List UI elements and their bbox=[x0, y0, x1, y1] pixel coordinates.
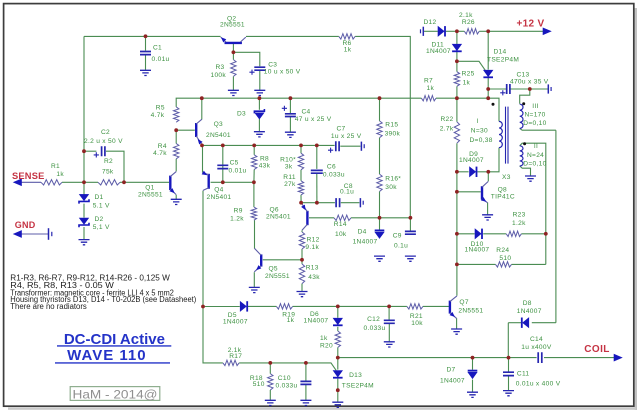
resistor R4 bbox=[174, 144, 179, 159]
svg-text:C9: C9 bbox=[393, 232, 402, 239]
svg-text:D=0,10: D=0,10 bbox=[523, 120, 546, 127]
wire q3 collector drop bbox=[201, 98, 203, 119]
wire iii bottom lead bbox=[520, 128, 556, 130]
svg-text:Q1: Q1 bbox=[145, 185, 154, 192]
wire d14 column bbox=[487, 31, 489, 69]
svg-text:Q4: Q4 bbox=[214, 187, 223, 194]
wire q2-c3 bbox=[233, 52, 259, 66]
wire r24 right bbox=[512, 263, 546, 265]
capacitor C12 bbox=[384, 320, 395, 323]
svg-text:100k: 100k bbox=[211, 72, 227, 79]
wire rail to coil arrow bbox=[544, 357, 616, 359]
transistor Q4 bbox=[207, 174, 209, 189]
svg-text:Q5: Q5 bbox=[269, 266, 278, 273]
resistor R15 bbox=[377, 121, 382, 138]
svg-text:D4: D4 bbox=[358, 229, 367, 236]
wire d5-r19 bbox=[248, 305, 276, 307]
wire r26-dot bbox=[479, 30, 488, 32]
wire q5 base row bbox=[263, 259, 302, 261]
svg-text:C6: C6 bbox=[327, 163, 336, 170]
ground 19 bbox=[467, 392, 478, 397]
wire c5 column bbox=[222, 145, 224, 182]
wire c6 column bbox=[316, 145, 318, 169]
wire q5 gnd lead bbox=[253, 272, 255, 287]
svg-text:N=170: N=170 bbox=[525, 112, 546, 119]
svg-text:COIL: COIL bbox=[584, 344, 610, 355]
svg-text:9.1k: 9.1k bbox=[305, 244, 319, 251]
resistor R2 bbox=[98, 180, 120, 185]
svg-text:2N5551: 2N5551 bbox=[220, 22, 245, 29]
transistor Q7 bbox=[449, 301, 451, 314]
wire d7 col bbox=[472, 358, 474, 370]
capacitor C1 bbox=[140, 52, 151, 55]
diode D11 bbox=[452, 44, 461, 50]
wire q6 base row bbox=[309, 217, 334, 219]
wire bottom rail bbox=[338, 357, 537, 359]
wire r8 column bbox=[253, 145, 255, 154]
wire d6 col bbox=[337, 306, 339, 317]
svg-text:There are no radiators: There are no radiators bbox=[10, 302, 87, 311]
svg-text:R16*: R16* bbox=[385, 175, 401, 182]
diode D12 bbox=[438, 26, 444, 36]
svg-text:C14: C14 bbox=[530, 336, 543, 343]
svg-text:1u x400V: 1u x400V bbox=[521, 344, 552, 351]
svg-text:C10: C10 bbox=[278, 375, 291, 382]
wire r19-d6 bbox=[293, 305, 338, 307]
wire c12 gnd lead bbox=[388, 324, 390, 342]
wire gnd lead bbox=[20, 233, 49, 235]
transformer winding III bbox=[520, 104, 523, 128]
wire c7 to port bbox=[340, 145, 360, 147]
wire c12 col bbox=[388, 306, 390, 320]
svg-text:+12 V: +12 V bbox=[517, 18, 545, 29]
svg-text:R1: R1 bbox=[51, 163, 60, 170]
resistor R12 bbox=[299, 232, 304, 249]
thyristor D13 bbox=[333, 371, 342, 377]
ground 15 bbox=[384, 342, 395, 347]
svg-text:C4: C4 bbox=[302, 108, 311, 115]
resistor R19 bbox=[276, 304, 292, 309]
svg-text:N=30: N=30 bbox=[471, 128, 488, 135]
port D12 input bbox=[422, 27, 424, 36]
svg-text:D7: D7 bbox=[447, 367, 456, 374]
svg-text:0.1u: 0.1u bbox=[394, 243, 408, 250]
svg-text:2.2 u x 50 V: 2.2 u x 50 V bbox=[84, 138, 123, 145]
capacitor C6 bbox=[311, 170, 323, 173]
svg-text:R2: R2 bbox=[104, 158, 113, 165]
svg-text:0.01u: 0.01u bbox=[229, 167, 247, 174]
transistor Q8 bbox=[481, 186, 483, 199]
resistor R21 bbox=[407, 304, 423, 309]
wire c13 xfmr drop bbox=[520, 89, 530, 104]
svg-text:1N4007: 1N4007 bbox=[459, 157, 484, 164]
capacitor C4 bbox=[285, 114, 296, 117]
wire d9 row bbox=[457, 171, 469, 173]
wire c10 col bbox=[305, 363, 307, 381]
wire c2 branch bbox=[84, 150, 96, 152]
port C8 output bbox=[359, 198, 361, 207]
wire trigger row bbox=[203, 306, 240, 308]
svg-text:10k: 10k bbox=[335, 231, 347, 238]
wire d3 drop bbox=[258, 98, 260, 110]
wire q2 base bbox=[232, 44, 234, 60]
svg-text:R4: R4 bbox=[158, 143, 167, 150]
wire d3 gnd lead bbox=[258, 119, 260, 132]
wire q5 coll col bbox=[254, 220, 256, 248]
wire r2-dot bbox=[120, 181, 124, 183]
svg-text:2.1k: 2.1k bbox=[459, 12, 473, 19]
wire q7 gnd lead bbox=[456, 318, 458, 329]
polarity dot I bbox=[492, 103, 495, 106]
wire c1 drop bbox=[145, 36, 147, 50]
svg-text:R20: R20 bbox=[320, 343, 333, 350]
diode D7 bbox=[468, 370, 478, 372]
port +12V arrow bbox=[543, 28, 551, 35]
svg-text:III: III bbox=[532, 103, 538, 110]
resistor R17 bbox=[223, 360, 239, 365]
wire r13 col bbox=[301, 284, 303, 292]
resistor R16 bbox=[377, 174, 382, 191]
svg-text:C12: C12 bbox=[367, 316, 380, 323]
resistor R8 bbox=[252, 155, 257, 170]
thyristor D14 bbox=[484, 70, 493, 76]
svg-text:1u x 25 V: 1u x 25 V bbox=[331, 133, 362, 140]
resistor R6 bbox=[339, 34, 355, 39]
ground 8 bbox=[249, 287, 260, 292]
wire c8 to port bbox=[341, 202, 360, 204]
svg-text:D1: D1 bbox=[95, 194, 104, 201]
svg-text:2.7k: 2.7k bbox=[440, 126, 454, 133]
wire r24 row bbox=[457, 263, 496, 265]
wire r8 bottom bbox=[253, 170, 255, 183]
diode D8 bbox=[523, 318, 529, 328]
svg-text:C13: C13 bbox=[517, 72, 530, 79]
ground 20 bbox=[503, 391, 514, 396]
svg-text:X3: X3 bbox=[502, 174, 511, 181]
resistor R10 bbox=[298, 153, 303, 170]
svg-text:1k: 1k bbox=[320, 335, 328, 342]
ground 16 bbox=[265, 400, 276, 405]
transistor Q3 bbox=[195, 123, 197, 137]
ground 7 bbox=[79, 240, 90, 245]
polarity dot II bbox=[523, 142, 526, 145]
svg-text:R3: R3 bbox=[215, 64, 224, 71]
svg-text:D3: D3 bbox=[237, 111, 246, 118]
svg-text:R17: R17 bbox=[229, 353, 242, 360]
svg-text:R13: R13 bbox=[306, 264, 319, 271]
svg-text:R11: R11 bbox=[283, 174, 296, 181]
resistor R14 bbox=[334, 215, 351, 220]
wire r12 column bbox=[301, 249, 303, 264]
svg-text:C2: C2 bbox=[101, 129, 110, 136]
wire d8 wire left bbox=[508, 322, 521, 324]
port COIL arrow bbox=[614, 354, 622, 361]
ground 18 bbox=[332, 402, 343, 407]
svg-text:1N4007: 1N4007 bbox=[223, 319, 248, 326]
svg-text:1N4007: 1N4007 bbox=[353, 239, 378, 246]
resistor R26 bbox=[464, 29, 479, 34]
capacitor C14 bbox=[538, 352, 542, 363]
svg-text:R14: R14 bbox=[334, 221, 347, 228]
wire q1 base row bbox=[124, 181, 169, 183]
wire d10 row a bbox=[457, 233, 475, 235]
svg-text:R26: R26 bbox=[462, 19, 475, 26]
svg-text:2N5551: 2N5551 bbox=[265, 273, 290, 280]
svg-text:0.01u: 0.01u bbox=[152, 56, 170, 63]
svg-text:510: 510 bbox=[253, 381, 265, 388]
wire row y217 bbox=[351, 217, 410, 219]
resistor R24 bbox=[496, 262, 512, 267]
wire c10 gnd lead bbox=[305, 385, 307, 401]
svg-text:10 u x 50 V: 10 u x 50 V bbox=[264, 69, 301, 76]
capacitor C11 bbox=[503, 372, 514, 375]
svg-text:R5: R5 bbox=[156, 105, 165, 112]
wire q4 emitter col bbox=[202, 145, 204, 172]
svg-text:4.7k: 4.7k bbox=[153, 150, 167, 157]
wire c11 gnd lead bbox=[508, 376, 510, 390]
ground 14 bbox=[451, 329, 462, 334]
diode D4 bbox=[375, 229, 385, 231]
svg-text:1N4007: 1N4007 bbox=[517, 308, 542, 315]
port GND arrow bbox=[14, 231, 22, 238]
ground 2 bbox=[228, 90, 239, 95]
ground 6 bbox=[171, 199, 182, 204]
wire c12-r21 bbox=[389, 305, 407, 307]
wire rail98 to xfmr bbox=[457, 98, 499, 121]
wire c13 row bbox=[488, 88, 506, 90]
resistor R20 bbox=[335, 331, 340, 347]
svg-text:1k: 1k bbox=[56, 171, 64, 178]
capacitor C2 bbox=[102, 146, 105, 156]
wire q8 gnd lead bbox=[487, 203, 489, 215]
svg-text:1k: 1k bbox=[344, 47, 352, 54]
transformer core bbox=[506, 107, 509, 164]
capacitor C8 bbox=[336, 198, 340, 207]
wire row y202 bbox=[301, 202, 335, 204]
ground 12 bbox=[482, 215, 493, 220]
wire x457 column bbox=[456, 31, 458, 44]
wire r21-q7 bbox=[423, 305, 449, 307]
wire winding1 top bbox=[498, 120, 500, 122]
svg-text:2N5401: 2N5401 bbox=[206, 132, 231, 139]
wire q8 collector bbox=[487, 172, 489, 181]
wire top rail right bbox=[246, 35, 339, 37]
svg-text:0.1u: 0.1u bbox=[340, 189, 354, 196]
svg-text:D12: D12 bbox=[424, 19, 437, 26]
wire r16 col bottom bbox=[379, 192, 381, 218]
wire r10-r11 link bbox=[300, 170, 302, 181]
svg-text:C3: C3 bbox=[268, 61, 277, 68]
svg-text:1.2k: 1.2k bbox=[512, 220, 526, 227]
svg-text:1k: 1k bbox=[463, 79, 471, 86]
transformer winding II bbox=[520, 146, 523, 166]
svg-text:HaM - 2014@: HaM - 2014@ bbox=[73, 387, 158, 401]
wire ii bottom lead bbox=[520, 166, 531, 176]
diode D6 bbox=[333, 318, 342, 324]
svg-text:TIP41C: TIP41C bbox=[491, 194, 515, 201]
svg-text:D=0,38: D=0,38 bbox=[470, 137, 493, 144]
resistor R22 bbox=[454, 122, 459, 143]
wire d8 wire right bbox=[532, 322, 556, 324]
wire x457 r22-d9 bbox=[456, 143, 458, 296]
svg-text:TSE2P4M: TSE2P4M bbox=[487, 57, 519, 64]
resistor R13 bbox=[299, 264, 304, 284]
wire d7 gnd lead bbox=[472, 380, 474, 392]
svg-text:470u x 35 V: 470u x 35 V bbox=[510, 79, 549, 86]
transformer winding I bbox=[499, 121, 502, 147]
svg-text:1N4007: 1N4007 bbox=[426, 48, 451, 55]
svg-text:Q7: Q7 bbox=[459, 299, 468, 306]
svg-text:30k: 30k bbox=[385, 184, 397, 191]
svg-text:GND: GND bbox=[15, 220, 36, 230]
svg-text:C11: C11 bbox=[517, 371, 530, 378]
svg-text:2N5551: 2N5551 bbox=[138, 192, 163, 199]
svg-text:D=0,10: D=0,10 bbox=[523, 160, 546, 167]
wire r18 col bbox=[269, 363, 271, 374]
svg-text:Q8: Q8 bbox=[498, 187, 507, 194]
wire +12 feed bbox=[488, 30, 543, 32]
zener D1 bbox=[79, 194, 88, 200]
svg-text:WAVE 110: WAVE 110 bbox=[67, 347, 146, 364]
wire r10 column bbox=[300, 145, 302, 153]
wire d10-r23 bbox=[483, 233, 506, 235]
transistor Q5 bbox=[260, 254, 262, 266]
svg-text:D14: D14 bbox=[494, 49, 507, 56]
resistor R25 bbox=[454, 72, 459, 87]
svg-text:R25: R25 bbox=[462, 71, 475, 78]
wire q6 collector bbox=[301, 230, 303, 232]
svg-text:Q6: Q6 bbox=[270, 207, 279, 214]
svg-text:1N4007: 1N4007 bbox=[465, 247, 490, 254]
svg-text:27k: 27k bbox=[284, 181, 296, 188]
svg-text:SENSE: SENSE bbox=[12, 171, 45, 181]
wire r4 top bbox=[175, 130, 177, 143]
svg-text:1N4007: 1N4007 bbox=[304, 317, 329, 324]
wire d13 bottom bbox=[337, 379, 339, 402]
port SENSE arrow bbox=[14, 179, 22, 186]
capacitor C5 bbox=[217, 165, 228, 168]
svg-text:75k: 75k bbox=[102, 169, 114, 176]
svg-text:47 u x 25 V: 47 u x 25 V bbox=[295, 116, 332, 123]
svg-text:C1: C1 bbox=[153, 45, 162, 52]
svg-text:R9: R9 bbox=[234, 208, 243, 215]
svg-text:43k: 43k bbox=[308, 274, 320, 281]
ground 13 bbox=[525, 176, 536, 181]
ground 3 bbox=[254, 90, 265, 95]
svg-text:R24: R24 bbox=[496, 247, 509, 254]
wire sense lead bbox=[20, 181, 41, 183]
ground 10 bbox=[374, 256, 385, 261]
diode D9 bbox=[470, 167, 476, 177]
wire d12-dot bbox=[446, 30, 457, 32]
resistor R9 bbox=[251, 207, 256, 220]
svg-text:1N4007: 1N4007 bbox=[440, 378, 465, 385]
wire c9 drop bbox=[409, 218, 411, 231]
wire c13-port bbox=[510, 88, 548, 90]
capacitor C13 bbox=[507, 84, 510, 94]
svg-text:R15: R15 bbox=[385, 122, 398, 129]
wire q4 base row bbox=[211, 181, 254, 183]
wire ii top lead bbox=[520, 143, 546, 264]
wire d14-c13 bbox=[487, 78, 489, 98]
capacitor C7 bbox=[336, 141, 339, 151]
svg-text:II: II bbox=[534, 143, 538, 150]
wire d13 gate bbox=[306, 363, 336, 371]
wire rail98 r7 right bbox=[436, 97, 457, 99]
wire winding1 bottom bbox=[488, 148, 499, 172]
svg-text:2N5551: 2N5551 bbox=[458, 307, 483, 314]
ground 9 bbox=[297, 292, 308, 297]
wire d1-d2 col bbox=[83, 204, 85, 218]
wire c4 gnd lead bbox=[289, 117, 291, 132]
svg-text:1.2k: 1.2k bbox=[230, 216, 244, 223]
svg-text:D8: D8 bbox=[523, 300, 532, 307]
wire d8 left leg bbox=[507, 323, 509, 358]
svg-text:2N5401: 2N5401 bbox=[266, 214, 291, 221]
diode D5 bbox=[240, 302, 246, 312]
svg-text:D2: D2 bbox=[95, 216, 104, 223]
capacitor C3 bbox=[254, 67, 265, 70]
svg-text:5.1 V: 5.1 V bbox=[93, 202, 110, 209]
wire left rail drop bbox=[203, 307, 223, 363]
svg-text:1k: 1k bbox=[427, 85, 435, 92]
wire r15-r16 link bbox=[379, 138, 381, 174]
svg-text:0.033u: 0.033u bbox=[364, 325, 386, 332]
svg-text:10k: 10k bbox=[411, 320, 423, 327]
wire d9-dot bbox=[477, 171, 488, 173]
capacitor C10 bbox=[300, 381, 311, 384]
zener D2 bbox=[79, 218, 88, 224]
transistor Q1 bbox=[169, 176, 171, 191]
resistor R11 bbox=[298, 181, 303, 195]
wire rail y145 bbox=[202, 144, 335, 146]
wire d14 gate bbox=[457, 61, 485, 70]
svg-text:390k: 390k bbox=[385, 130, 401, 137]
wire r1-dot bbox=[62, 181, 98, 183]
wire d12 row bbox=[423, 30, 438, 32]
transistor Q2 bbox=[225, 42, 242, 44]
port C13 output bbox=[547, 84, 549, 93]
wire d6-c12 bbox=[338, 305, 389, 307]
wire rail1 to corner bbox=[355, 36, 410, 217]
resistor R23 bbox=[506, 231, 521, 236]
svg-text:43k: 43k bbox=[259, 163, 271, 170]
port C7 output bbox=[360, 142, 362, 151]
signature box bbox=[70, 387, 160, 401]
wire q4 collector col bbox=[202, 191, 204, 307]
wire c1 gnd lead bbox=[145, 56, 147, 71]
wire rail2 y98 bbox=[176, 98, 421, 107]
svg-text:D13: D13 bbox=[349, 372, 362, 379]
resistor R5 bbox=[174, 107, 179, 122]
wire r20 col bbox=[337, 327, 339, 331]
wire r15 col top bbox=[379, 98, 381, 121]
wire left column x84 bbox=[83, 36, 85, 194]
wire c11 col bbox=[508, 358, 510, 372]
svg-text:R23: R23 bbox=[513, 212, 526, 219]
svg-text:R7: R7 bbox=[424, 78, 433, 85]
ground 5 bbox=[285, 132, 296, 137]
svg-text:R8: R8 bbox=[260, 155, 269, 162]
wire r18 gnd lead bbox=[269, 390, 271, 400]
wire x556 column bbox=[555, 130, 557, 323]
svg-text:C5: C5 bbox=[230, 159, 239, 166]
svg-text:5,1 V: 5,1 V bbox=[93, 224, 110, 231]
svg-text:0.033u: 0.033u bbox=[323, 171, 345, 178]
wire r4-q1 bbox=[175, 159, 177, 172]
resistor R18 bbox=[268, 374, 273, 390]
svg-text:R22: R22 bbox=[441, 116, 454, 123]
